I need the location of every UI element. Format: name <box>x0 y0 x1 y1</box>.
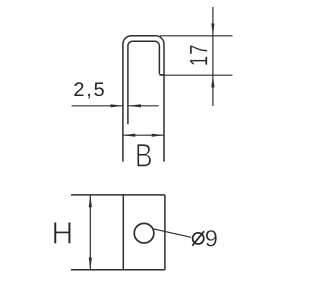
side view middle vertical edge <box>122 195 124 270</box>
arrow down tip (H) <box>89 258 92 270</box>
diameter symbol slash <box>192 231 204 246</box>
side view top edge <box>71 194 165 196</box>
leader line for hole <box>154 229 191 237</box>
arrow left tip (B) <box>123 134 135 137</box>
dimension line 2,5 left segment <box>72 105 123 107</box>
side view right vertical edge <box>164 195 166 270</box>
right leg end cap <box>159 74 164 76</box>
arrow down at top of 17 <box>211 24 214 36</box>
arrow right at outer leg edge (2,5) <box>111 104 123 107</box>
arrow up tip (H) <box>89 195 92 207</box>
hook profile outer contour (top view) with B extension legs <box>123 36 164 162</box>
hole circle d9 <box>134 223 154 243</box>
dimension line H vertical <box>89 195 91 270</box>
dimension line 17 vertical <box>212 7 214 106</box>
label 2,5 <box>74 82 103 98</box>
label 17 (rotated) <box>190 45 207 64</box>
side view bottom edge <box>71 269 165 271</box>
extension line top (17 dim) <box>160 35 233 37</box>
dimension line B <box>123 134 164 136</box>
hook profile inner contour <box>128 41 159 124</box>
dimension line 2,5 right segment <box>129 105 159 107</box>
label 9 <box>206 230 217 246</box>
diameter symbol circle <box>193 233 204 244</box>
arrow up at bottom of 17 <box>211 75 214 87</box>
label H <box>54 222 71 244</box>
arrow right tip (B) <box>152 134 164 137</box>
arrow left at inner leg edge (2,5) <box>129 104 141 107</box>
extension line bottom (17 dim) <box>159 74 232 76</box>
label B <box>137 144 151 167</box>
